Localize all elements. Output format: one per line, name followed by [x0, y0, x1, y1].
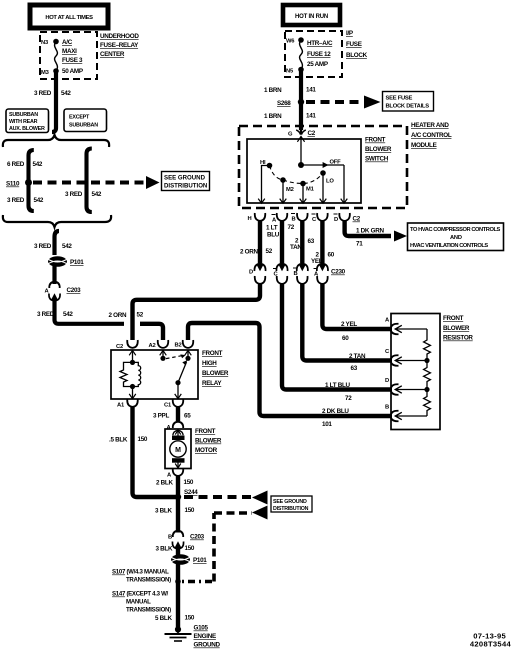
svg-text:6 RED: 6 RED	[7, 161, 25, 168]
terminal H of C2	[248, 213, 266, 222]
svg-text:S147 (EXCEPT 4.3 W/: S147 (EXCEPT 4.3 W/	[112, 591, 169, 598]
svg-text:EXCEPT: EXCEPT	[69, 115, 90, 121]
wire 2 YEL 60 from C230 A to resistor A	[322, 284, 392, 330]
resistor element R3 between D and B	[424, 390, 431, 417]
svg-text:65: 65	[184, 413, 191, 420]
svg-text:FRONT: FRONT	[365, 137, 386, 144]
svg-text:BLOCK DETAILS: BLOCK DETAILS	[386, 104, 430, 110]
svg-text:71: 71	[356, 241, 363, 248]
grommet P101 (lower)	[171, 554, 207, 565]
label heater and a/c control module	[411, 122, 452, 149]
svg-text:150: 150	[138, 436, 148, 443]
svg-text:SEE GROUND: SEE GROUND	[164, 175, 206, 182]
resistor terminal D	[385, 378, 427, 395]
arrow to see fuse block details	[364, 96, 381, 109]
svg-text:63: 63	[351, 365, 358, 372]
switch arm to OFF	[301, 160, 344, 169]
hot-at-all-times banner	[30, 5, 108, 28]
svg-text:C2: C2	[308, 130, 316, 137]
svg-text:BLOWER: BLOWER	[443, 325, 470, 332]
svg-text:150: 150	[185, 507, 195, 514]
svg-text:25 AMP: 25 AMP	[307, 61, 328, 68]
dashed reference wire from S268	[306, 100, 364, 104]
relay terminal B2	[175, 340, 194, 358]
svg-text:60: 60	[328, 252, 335, 259]
brace merge bottom	[3, 215, 111, 227]
resistor terminal C	[385, 349, 427, 366]
svg-text:542: 542	[61, 90, 71, 97]
label front blower switch	[365, 137, 392, 163]
svg-text:FUSE–RELAY: FUSE–RELAY	[100, 42, 139, 49]
svg-text:FRONT: FRONT	[443, 315, 464, 322]
svg-text:3 RED: 3 RED	[37, 311, 55, 318]
svg-text:3 RED: 3 RED	[34, 243, 52, 250]
wire 2 ORN 52 switch H to C230 D	[258, 221, 262, 263]
svg-text:3 PPL: 3 PPL	[153, 413, 169, 420]
svg-text:2 BLK: 2 BLK	[156, 480, 173, 487]
connector C230 pin B	[293, 264, 308, 284]
svg-text:S107 (W/4.3 MANUAL: S107 (W/4.3 MANUAL	[112, 569, 169, 576]
wire 3 BLK 150 C203 to P101	[176, 548, 180, 556]
switch position HI	[258, 160, 272, 203]
svg-text:150: 150	[185, 615, 195, 622]
svg-text:542: 542	[34, 197, 44, 204]
relay contact blade B2 to C1	[175, 356, 191, 399]
svg-text:1 LT: 1 LT	[266, 225, 278, 232]
svg-text:4208T3544: 4208T3544	[470, 640, 512, 649]
junction node at C	[424, 358, 429, 363]
relay terminal C1	[164, 399, 183, 409]
svg-text:HIGH: HIGH	[202, 360, 217, 367]
switch position M1	[300, 181, 315, 204]
wire 3 BLK 150 S244 to C203	[176, 497, 180, 533]
svg-text:C203: C203	[190, 534, 205, 541]
callout see fuse block details	[383, 92, 434, 112]
connector C203 pin A (upper)	[45, 282, 82, 301]
motor terminal A top	[167, 422, 184, 431]
callout to hvac compressor controls	[408, 223, 504, 251]
wire branch right 3 RED 542	[65, 149, 102, 213]
svg-text:DISTRIBUTION: DISTRIBUTION	[164, 183, 207, 190]
relay terminal A1	[117, 399, 138, 409]
resistor element R1 between A and C	[424, 329, 431, 361]
svg-text:I/P: I/P	[346, 30, 353, 37]
arrow left from see ground distribution (upper)	[252, 491, 268, 505]
callout see ground distribution (upper)	[162, 172, 210, 191]
svg-text:BLU: BLU	[267, 232, 280, 239]
terminal D of C2	[334, 213, 361, 223]
connector C230 pin C	[273, 264, 288, 284]
svg-text:C2: C2	[353, 216, 361, 223]
svg-text:B: B	[294, 271, 298, 277]
label front blower resistor	[443, 315, 473, 342]
svg-text:542: 542	[33, 161, 43, 168]
svg-text:HTR–A/C: HTR–A/C	[307, 40, 333, 47]
svg-text:542: 542	[63, 311, 73, 318]
svg-text:C2: C2	[116, 344, 123, 350]
switch wiper dashed arc	[270, 166, 324, 184]
heater and a/c control module box	[239, 126, 407, 208]
wire 2 TAN 63 from C230 B to resistor C	[302, 284, 392, 361]
svg-text:5 BLK: 5 BLK	[155, 615, 172, 622]
svg-text:SEE GROUND: SEE GROUND	[273, 499, 307, 505]
svg-text:A2: A2	[149, 343, 156, 349]
label underhood fuse-relay center	[100, 33, 139, 58]
callout suburban with rear aux. blower	[6, 109, 49, 133]
svg-text:P101: P101	[193, 557, 207, 564]
terminal C of C2	[312, 213, 328, 223]
svg-text:BLOWER: BLOWER	[195, 438, 222, 445]
relay terminal A2	[149, 340, 169, 358]
fuse F12 HTR-A/C FUSE 12 25 AMP	[286, 37, 333, 74]
terminal B of C2	[291, 213, 308, 223]
svg-text:SWITCH: SWITCH	[365, 156, 389, 163]
label i/p fuse block	[346, 30, 368, 59]
wire 3 RED 542 below C203	[55, 300, 125, 324]
splice S110	[25, 179, 32, 186]
fuse F3 A/C MAXI FUSE 3 50 AMP	[41, 39, 83, 76]
svg-text:A1: A1	[117, 403, 125, 409]
svg-text:HOT IN RUN: HOT IN RUN	[295, 14, 328, 20]
svg-text:FUSE 3: FUSE 3	[62, 57, 83, 64]
label S107	[112, 569, 171, 584]
svg-text:A/C CONTROL: A/C CONTROL	[411, 132, 452, 139]
wire 3 PPL 65 from relay C1 to motor	[176, 407, 180, 421]
svg-text:AND: AND	[450, 235, 462, 241]
svg-text:MAXI: MAXI	[62, 48, 77, 55]
svg-text:FUSE: FUSE	[346, 41, 362, 48]
svg-text:FRONT: FRONT	[202, 350, 223, 357]
svg-text:MOTOR: MOTOR	[195, 447, 218, 454]
wire 1 LT BLU 72 switch A to C230 C	[280, 221, 284, 263]
wire branch left 6 RED 542	[7, 150, 44, 211]
splice S268	[298, 99, 304, 105]
wire .5 BLK 150 from relay A1 to S244	[133, 407, 177, 497]
svg-text:1 BRN: 1 BRN	[264, 87, 282, 94]
svg-text:D: D	[249, 270, 253, 276]
svg-text:H: H	[248, 216, 252, 222]
svg-text:3 BLK: 3 BLK	[156, 546, 173, 553]
svg-text:TRANSMISSION): TRANSMISSION)	[126, 577, 171, 584]
motor M1 internals	[170, 430, 186, 468]
svg-text:542: 542	[92, 191, 102, 198]
svg-text:2 ORN: 2 ORN	[109, 312, 127, 319]
svg-text:N5: N5	[286, 69, 294, 75]
front blower motor box	[165, 429, 191, 469]
svg-text:SUBURBAN: SUBURBAN	[9, 112, 38, 118]
dashed reference wire from S244	[184, 495, 252, 499]
svg-text:3 BLK: 3 BLK	[155, 508, 172, 515]
svg-text:G105: G105	[194, 625, 209, 632]
svg-text:B2: B2	[175, 343, 182, 349]
junction node at D	[424, 387, 429, 392]
connector C203 pin B (lower)	[168, 531, 205, 549]
svg-text:C203: C203	[67, 287, 82, 294]
arrow to hvac controls	[394, 231, 407, 242]
terminal A of C2	[272, 213, 288, 224]
svg-text:MANUAL: MANUAL	[126, 599, 151, 606]
wire 2 DK BLU from relay B2 to resistor B	[188, 323, 392, 416]
svg-text:HVAC VENTILATION CONTROLS: HVAC VENTILATION CONTROLS	[410, 243, 488, 249]
svg-text:141: 141	[306, 87, 316, 94]
svg-text:RELAY: RELAY	[202, 380, 222, 387]
splice S244	[175, 494, 181, 500]
wire 2 YEL 60 switch C to C230 A	[320, 221, 324, 263]
svg-text:RESISTOR: RESISTOR	[443, 335, 473, 342]
brace split top	[3, 135, 109, 147]
svg-text:LO: LO	[326, 179, 334, 185]
svg-text:2 ORN: 2 ORN	[240, 249, 258, 256]
label S147	[112, 591, 171, 614]
relay terminal C2	[116, 340, 138, 362]
svg-text:W6: W6	[286, 39, 295, 45]
switch common node	[298, 162, 304, 168]
dashed reference wire from S110	[33, 181, 146, 185]
svg-text:G: G	[288, 132, 293, 138]
wire 3 RED 542 below merge	[55, 231, 60, 255]
svg-text:3 RED: 3 RED	[65, 191, 83, 198]
svg-text:M: M	[175, 447, 181, 454]
wire 1 BRN 141 from fuse down to module	[299, 71, 303, 130]
i/p fuse block box	[285, 31, 342, 77]
relay coil between C2 and A1	[120, 360, 141, 399]
svg-text:B: B	[168, 535, 172, 541]
svg-text:HOT AT ALL TIMES: HOT AT ALL TIMES	[45, 15, 93, 21]
svg-text:1 DK GRN: 1 DK GRN	[356, 228, 384, 235]
wire 3 RED 542 from fuse down	[52, 73, 56, 132]
svg-text:P101: P101	[70, 259, 84, 266]
wire 2 TAN 63 switch B to C230 B	[300, 221, 304, 263]
svg-text:CENTER: CENTER	[100, 51, 125, 58]
front blower resistor box	[391, 314, 440, 430]
connector C230 pin D	[249, 264, 266, 284]
wire 2 ORN 52 from C230 D to relay C2	[133, 284, 261, 341]
svg-text:B: B	[385, 405, 389, 411]
svg-text:101: 101	[322, 421, 332, 428]
svg-text:542: 542	[62, 243, 72, 250]
svg-text:72: 72	[345, 395, 352, 402]
splice S107/S147 dash-dot reference	[175, 513, 252, 584]
ground G105	[165, 625, 221, 649]
svg-text:MODULE: MODULE	[411, 142, 437, 149]
svg-text:1 BRN: 1 BRN	[264, 113, 282, 120]
svg-text:TO HVAC COMPRESSOR CONTROLS: TO HVAC COMPRESSOR CONTROLS	[410, 227, 501, 233]
wire 5 BLK 150 to ground	[176, 610, 180, 629]
svg-text:BLOWER: BLOWER	[365, 146, 392, 153]
terminal G connector C2 into module	[288, 129, 316, 138]
wire 1 DK GRN 71 switch D to hvac controls	[345, 221, 391, 236]
svg-text:.5 BLK: .5 BLK	[109, 437, 128, 444]
svg-text:N3: N3	[41, 40, 49, 46]
switch position M2	[280, 177, 294, 203]
svg-text:2 YEL: 2 YEL	[341, 321, 357, 328]
connector C230 pin A	[314, 264, 346, 284]
arrow left from see ground distribution (lower)	[252, 506, 268, 520]
svg-text:BLOCK: BLOCK	[346, 52, 368, 59]
callout see ground distribution (lower)	[271, 496, 312, 512]
svg-text:S268: S268	[277, 100, 291, 107]
wire to splice S107/S147	[176, 564, 180, 610]
svg-text:B: B	[292, 217, 296, 223]
svg-text:150: 150	[185, 545, 195, 552]
wire 1 LT BLU 72 from C230 C to resistor D	[282, 284, 392, 390]
svg-text:S110: S110	[6, 181, 20, 188]
motor terminal A bottom	[167, 468, 183, 479]
svg-text:DISTRIBUTION: DISTRIBUTION	[273, 506, 309, 512]
svg-text:SUBURBAN: SUBURBAN	[69, 123, 98, 129]
label front blower motor	[195, 428, 222, 454]
switch feed wire with up arrow	[297, 136, 304, 165]
svg-text:50 AMP: 50 AMP	[62, 68, 83, 75]
svg-text:3 RED: 3 RED	[7, 197, 25, 204]
svg-text:FUSE 12: FUSE 12	[307, 51, 331, 58]
svg-text:52: 52	[266, 248, 273, 255]
resistor element R2 between C and D	[424, 361, 431, 390]
svg-text:72: 72	[288, 224, 295, 231]
svg-text:1 LT BLU: 1 LT BLU	[325, 382, 351, 389]
svg-text:TRANSMISSION): TRANSMISSION)	[126, 607, 171, 614]
svg-text:S244: S244	[184, 489, 198, 496]
svg-text:WITH REAR: WITH REAR	[9, 119, 38, 125]
svg-text:2 DK BLU: 2 DK BLU	[322, 408, 349, 415]
hot-in-run banner	[283, 5, 340, 25]
switch position LO	[320, 170, 335, 203]
svg-text:150: 150	[184, 479, 194, 486]
svg-text:63: 63	[308, 238, 315, 245]
svg-text:FRONT: FRONT	[195, 428, 216, 435]
svg-text:GROUND: GROUND	[194, 642, 221, 649]
svg-text:3 RED: 3 RED	[34, 90, 52, 97]
wire between P101 and C203	[52, 266, 56, 284]
svg-text:C230: C230	[331, 269, 346, 276]
svg-text:OFF: OFF	[330, 160, 342, 166]
label front high blower relay	[202, 350, 229, 387]
svg-text:AUX. BLOWER: AUX. BLOWER	[9, 126, 45, 132]
svg-text:C1: C1	[164, 403, 172, 409]
svg-text:2 TAN: 2 TAN	[349, 353, 366, 360]
wire 2 BLK 150 motor to S244	[176, 476, 180, 495]
underhood fuse-relay center box	[40, 32, 97, 79]
svg-text:HEATER AND: HEATER AND	[411, 122, 449, 129]
svg-text:M1: M1	[306, 187, 315, 193]
arrow to see ground distribution	[146, 176, 160, 189]
svg-text:M2: M2	[286, 187, 294, 193]
svg-text:BLOWER: BLOWER	[202, 370, 229, 377]
front high blower relay box	[111, 350, 198, 399]
svg-text:SEE FUSE: SEE FUSE	[386, 96, 413, 102]
svg-text:M3: M3	[41, 70, 50, 76]
relay actuation dashed link from A2	[160, 354, 185, 361]
resistor terminal A	[385, 318, 427, 335]
svg-text:UNDERHOOD: UNDERHOOD	[100, 33, 139, 40]
front blower switch box	[247, 139, 361, 203]
wire 3 RED to relay A2 (crossover continues)	[140, 324, 163, 340]
svg-text:D: D	[334, 217, 338, 223]
svg-text:ENGINE: ENGINE	[194, 633, 216, 640]
grommet P101 (upper)	[48, 256, 84, 267]
svg-text:TAN: TAN	[290, 244, 302, 251]
svg-text:60: 60	[342, 335, 349, 342]
svg-text:D: D	[385, 378, 389, 384]
callout except suburban	[64, 109, 107, 132]
svg-text:141: 141	[306, 113, 316, 120]
switch OFF leg down	[341, 165, 348, 203]
svg-text:A/C: A/C	[62, 39, 73, 46]
resistor terminal B	[385, 405, 427, 422]
svg-text:52: 52	[137, 312, 144, 319]
